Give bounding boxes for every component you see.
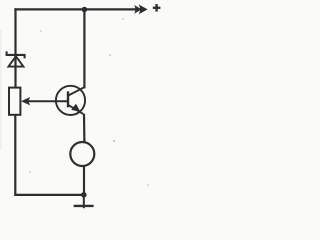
wire left rail upper bbox=[14, 8, 16, 88]
minus terminal stub bbox=[83, 195, 85, 208]
wire emitter to load bbox=[83, 114, 86, 143]
zener diode D1 triangle bbox=[8, 56, 23, 66]
zener diode D1 cathode bar bbox=[7, 51, 25, 58]
wire left rail lower bbox=[14, 115, 16, 196]
wire load to bottom rail bbox=[83, 165, 85, 195]
transistor Q1 collector stroke bbox=[68, 87, 85, 96]
scan edge shading left bbox=[0, 30, 2, 150]
transistor Q1 emitter arrowhead bbox=[71, 104, 80, 112]
wiper arrowhead bbox=[21, 97, 30, 105]
arrowhead rear chevron bbox=[134, 5, 141, 14]
junction dot bottom bbox=[81, 192, 87, 198]
scan speckles bbox=[29, 18, 149, 186]
transistor Q1 circle bbox=[56, 86, 85, 115]
transistor Q1 emitter stroke bbox=[68, 105, 83, 114]
arrowhead + terminal bbox=[139, 4, 148, 14]
wire collector drop bbox=[83, 10, 85, 89]
wire top rail bbox=[14, 8, 140, 10]
wire bottom rail bbox=[14, 194, 84, 196]
+ label bbox=[153, 4, 161, 12]
transistor Q1 base bar bbox=[67, 91, 69, 107]
potentiometer R1 body bbox=[9, 88, 20, 115]
minus terminal bar bbox=[74, 205, 94, 207]
junction dot top bbox=[82, 7, 88, 13]
wiper arrow shaft bbox=[27, 100, 69, 102]
load lamp M1 bbox=[70, 142, 94, 166]
